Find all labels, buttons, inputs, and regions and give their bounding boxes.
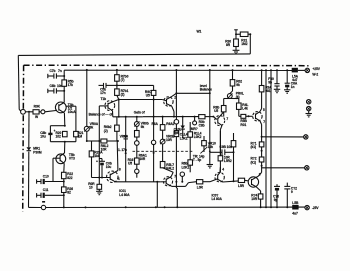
text IC01 <box>119 189 130 197</box>
svg-text:102: 102 <box>56 135 62 139</box>
pot wiper P2 <box>135 137 140 158</box>
svg-text:10u: 10u <box>106 165 112 169</box>
resistor R9B <box>231 133 236 152</box>
wire +V rail <box>64 69 296 71</box>
svg-text:7n: 7n <box>58 69 62 73</box>
wire R9C column down <box>151 100 155 182</box>
svg-text:C8b: C8b <box>199 124 205 128</box>
svg-text:10R: 10R <box>139 157 146 161</box>
wire sub-circuit horizontal <box>236 33 250 35</box>
capacitor C6b <box>48 84 64 94</box>
diode D2 <box>118 116 128 153</box>
wire chain low <box>258 162 263 176</box>
ground R0R <box>96 191 102 194</box>
svg-text:U5: U5 <box>214 109 218 113</box>
capacitor C9A <box>268 70 279 89</box>
svg-text:L4k: L4k <box>242 106 248 110</box>
terminal input W0 <box>21 109 26 114</box>
wire input <box>25 110 57 112</box>
connector pin W0b <box>41 110 45 114</box>
capacitor C6A electrolytic <box>285 70 298 90</box>
svg-text:10k: 10k <box>208 145 214 149</box>
terminal MR pin <box>191 117 198 132</box>
svg-text:10u: 10u <box>40 135 46 139</box>
svg-text:(2): (2) <box>121 92 125 96</box>
svg-text:L5R2: L5R2 <box>224 159 232 163</box>
resistor R8b <box>213 98 232 116</box>
wire left enclosure <box>18 55 21 111</box>
capacitor C7b <box>48 69 64 79</box>
capacitor C30 <box>273 184 280 207</box>
resistor R28 <box>238 178 248 188</box>
svg-text:W1: W1 <box>197 30 202 34</box>
resistor R22 <box>62 172 74 187</box>
resistor R02 <box>230 70 242 87</box>
svg-text:+25V: +25V <box>312 67 320 71</box>
wire T1b base drop <box>98 106 100 178</box>
resistor R16 <box>128 158 140 169</box>
svg-text:17k: 17k <box>68 83 74 87</box>
ground C9A <box>274 89 280 92</box>
wire R6A column top <box>162 117 164 125</box>
svg-text:VR0A: VR0A <box>120 134 129 138</box>
svg-text:17n: 17n <box>100 91 106 95</box>
diode MR1 <box>27 147 42 155</box>
transistor T7a (dashed) <box>215 112 229 156</box>
svg-text:U5: U5 <box>146 93 150 97</box>
svg-text:1M: 1M <box>78 135 83 139</box>
svg-text:(7): (7) <box>121 78 125 82</box>
wire long vertical V266 <box>265 70 267 207</box>
svg-text:10n: 10n <box>227 145 233 149</box>
trimmer VR0b <box>134 117 148 129</box>
terminal +25V <box>305 67 321 76</box>
svg-text:7: 7 <box>226 117 228 121</box>
svg-text:9b: 9b <box>268 80 272 84</box>
pot wiper P3 <box>135 169 139 178</box>
svg-text:L0K2: L0K2 <box>194 135 202 139</box>
svg-text:8: 8 <box>119 167 121 171</box>
trimmer VR0B <box>160 130 175 161</box>
resistor R0R <box>88 178 101 192</box>
svg-text:(k1): (k1) <box>251 160 257 164</box>
trimmer VR10 <box>193 136 216 162</box>
wire collector feed T3b <box>63 70 65 102</box>
resistor R15 <box>120 126 140 138</box>
resistor VR1 <box>101 139 109 152</box>
resistor R9A <box>259 70 272 93</box>
svg-text:VT3: VT3 <box>69 157 75 161</box>
svg-text:10R: 10R <box>251 197 258 201</box>
svg-text:Balance: Balance <box>200 88 212 92</box>
capacitor C0b electrolytic <box>96 159 112 178</box>
svg-text:T - 5p: T - 5p <box>193 158 201 162</box>
svg-text:(k1): (k1) <box>251 145 257 149</box>
wire sub-circuit drop <box>249 34 251 54</box>
wire level feed <box>175 70 177 119</box>
resistor R19 <box>197 180 211 190</box>
terminal W3 <box>304 135 308 139</box>
transistor T9 (driver low, dashed) <box>210 167 238 182</box>
wire gain row <box>113 116 143 118</box>
svg-text:P30M: P30M <box>33 150 42 154</box>
resistor R13 <box>174 131 188 182</box>
svg-text:L5R: L5R <box>238 184 245 188</box>
wire 0V bottom rail <box>29 206 307 208</box>
diode D3 <box>174 117 185 138</box>
svg-text:7: 7 <box>174 175 176 179</box>
text IC02 <box>212 193 223 201</box>
wire output chain <box>261 136 304 138</box>
ground chassis <box>306 114 312 117</box>
ground C6A <box>284 90 290 93</box>
resistor R22a <box>251 157 264 165</box>
capacitor C32 <box>284 183 297 208</box>
svg-text:10R: 10R <box>166 138 173 142</box>
svg-text:4: 4 <box>222 168 224 172</box>
svg-text:9p: 9p <box>274 198 278 202</box>
terminal -25V <box>305 205 320 209</box>
resistor R7b0 <box>115 70 129 82</box>
svg-text:Balance of — of: Balance of — of <box>89 113 114 117</box>
svg-text:7: 7 <box>263 120 265 124</box>
svg-text:-25V: -25V <box>312 206 320 210</box>
dash-dot chassis border left <box>22 65 25 211</box>
resistor R20 <box>56 131 68 139</box>
resistor R18 <box>218 131 232 174</box>
wire chain mid <box>261 147 263 157</box>
svg-text:C11: C11 <box>43 188 49 192</box>
capacitor C10 <box>37 174 65 184</box>
node W1 label <box>197 30 202 34</box>
resistor R7b1 <box>115 81 129 100</box>
capacitor C8b electrolytic <box>40 129 55 139</box>
svg-text:U5: U5 <box>128 161 132 165</box>
transistor T2b (dual half, dashed) <box>162 92 177 116</box>
resistor R0K input <box>33 104 41 118</box>
svg-text:9k: 9k <box>236 83 240 87</box>
resistor R6A <box>152 122 175 130</box>
ground VR10 <box>207 150 213 167</box>
svg-text:R6A2: R6A2 <box>166 122 174 126</box>
resistor R29 base <box>199 115 205 128</box>
svg-text:9k: 9k <box>90 125 94 129</box>
resistor R4b <box>233 99 249 117</box>
resistor R17 <box>160 162 174 171</box>
svg-text:T1b: T1b <box>101 97 107 101</box>
wire balance row <box>87 140 119 142</box>
wire T7a base <box>143 116 217 120</box>
wire T1b emitter drop <box>117 117 118 171</box>
trimmer PR0L <box>227 86 244 99</box>
inductor L5A (supply filter, top) <box>292 68 305 82</box>
transistor T7 (dual half, dashed) <box>161 168 197 187</box>
svg-text:9: 9 <box>291 190 293 194</box>
resistor R5b <box>62 80 74 88</box>
resistor R20A <box>89 141 103 178</box>
resistor R14 <box>188 122 202 162</box>
svg-text:L0K2: L0K2 <box>182 165 190 169</box>
transistor T3b <box>55 102 76 126</box>
wire T5b base <box>52 158 54 181</box>
svg-text:10: 10 <box>89 185 93 189</box>
wire mains stub up <box>234 30 238 35</box>
svg-text:Gain of: Gain of <box>134 111 146 115</box>
capacitor C9B <box>210 145 235 181</box>
svg-text:L4 80A: L4 80A <box>212 197 223 201</box>
text level balance <box>200 84 212 92</box>
wire base link T1-T2 <box>119 100 163 117</box>
resistor R21a <box>251 141 264 149</box>
resistor R2c (on T1b emitter column) <box>104 125 119 133</box>
svg-text:C7b: C7b <box>50 69 56 73</box>
svg-text:822: 822 <box>67 176 73 180</box>
svg-text:L0R: L0R <box>197 185 204 189</box>
svg-text:C9B: C9B <box>219 145 226 149</box>
transistor T8a (dashed) <box>253 92 266 142</box>
svg-text:8R: 8R <box>226 43 231 47</box>
wire balance feed <box>86 70 88 142</box>
resistor R6b <box>182 160 193 173</box>
wire V156 <box>156 181 158 208</box>
svg-text:L5B: L5B <box>292 201 299 205</box>
svg-text:4u7: 4u7 <box>292 212 298 216</box>
transistor T10 (output low) <box>248 173 261 194</box>
svg-text:5: 5 <box>263 108 265 112</box>
svg-text:C6b: C6b <box>50 84 56 88</box>
dashed gang coupling <box>133 150 194 152</box>
svg-text:W-2: W-2 <box>312 72 318 76</box>
transistor T1b (dual half, dashed) <box>99 97 119 117</box>
svg-text:L5K2: L5K2 <box>180 136 188 140</box>
svg-text:1M2: 1M2 <box>241 42 247 46</box>
ground (sub-circuit) <box>233 50 240 53</box>
wire MR1 branch <box>28 112 31 208</box>
wire mid node row <box>125 152 147 182</box>
wire top enclosure <box>18 54 250 56</box>
resistor R26 <box>62 187 74 208</box>
trimmer VR0A <box>84 122 99 132</box>
resistor R31 <box>240 32 248 46</box>
node B junction <box>249 33 251 35</box>
svg-text:R0K: R0K <box>34 104 41 108</box>
wire feedback loop box <box>50 125 76 143</box>
svg-text:82: 82 <box>67 191 71 195</box>
wire T2b collector link <box>176 93 209 117</box>
transistor T5b <box>53 142 75 173</box>
svg-text:9k: 9k <box>141 125 145 129</box>
resistor R9C <box>117 85 156 100</box>
svg-text:W: W <box>35 115 39 119</box>
terminal W4 <box>305 166 309 170</box>
resistor R24 <box>251 194 263 208</box>
svg-text:1. 17p: 1. 17p <box>118 148 127 152</box>
wire V177 <box>175 181 177 208</box>
svg-text:(2): (2) <box>104 129 108 133</box>
node A junction <box>235 33 237 35</box>
transistor T6 (lower left of output, thermal-coupled dashed) <box>92 167 161 182</box>
svg-text:5p6: 5p6 <box>174 131 180 135</box>
svg-text:R01: R01 <box>240 123 246 127</box>
terminal chassis pair <box>307 100 311 114</box>
junction dots on 0V rail <box>63 206 288 208</box>
resistor R21 <box>66 106 84 142</box>
resistor R5B base <box>240 114 253 126</box>
svg-text:10uA: 10uA <box>68 110 76 114</box>
text balance note <box>89 113 114 117</box>
pot wiper P1 <box>174 120 179 134</box>
junction dots on +V rail <box>86 69 288 71</box>
svg-text:1n: 1n <box>291 85 295 89</box>
wire output2 <box>262 167 305 169</box>
terminal E (earth on rail) <box>41 201 45 210</box>
wire bias drop <box>209 70 211 153</box>
resistor R30 <box>225 34 238 50</box>
svg-text:L4 80A: L4 80A <box>119 193 130 197</box>
wire long vertical V271 <box>270 70 272 207</box>
svg-text:R6A: R6A <box>152 122 159 126</box>
svg-text:4: 4 <box>118 177 120 181</box>
dash-dot chassis border top <box>24 64 309 67</box>
text gain note <box>134 111 146 115</box>
capacitor C5b <box>99 83 117 95</box>
capacitor C11 <box>37 188 65 198</box>
svg-text:C10: C10 <box>43 174 49 178</box>
pot wiper P4 <box>180 172 184 183</box>
svg-text:+: + <box>96 159 98 163</box>
svg-text:3: 3 <box>259 173 261 177</box>
inductor L5B (supply filter, bottom) <box>292 201 299 216</box>
